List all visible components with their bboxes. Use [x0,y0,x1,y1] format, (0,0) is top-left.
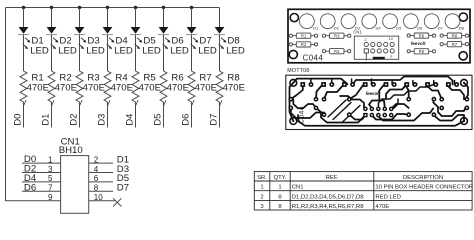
copper trace mid diagonals 2 [342,106,360,123]
LED D1 [18,27,30,49]
copper CN1 pads [363,107,393,118]
svg-text:5: 5 [48,174,53,183]
svg-text:R1,R2,R3,R4,R5,R6,R7,R8: R1,R2,R3,R4,R5,R6,R7,R8 [292,204,364,210]
LED D5 [130,27,142,49]
copper trace D5 cathode down [379,85,384,101]
resistor R3 [76,71,83,102]
svg-text:D5: D5 [152,114,163,126]
copper trace D2 cathode to R1 pad [316,85,323,100]
copper trace left S [293,99,316,108]
wire resistor to net D5 [163,102,165,128]
wire branch 7 anode [191,8,193,28]
node junction bus/branch 2 [50,6,53,9]
wire branch 8 anode [219,8,221,28]
wire LED to resistor [51,35,53,71]
wire LED to resistor [23,35,25,71]
mounting hole bottom-right [459,52,467,60]
svg-text:LED: LED [142,45,161,56]
svg-text:1: 1 [260,185,263,191]
copper trace right wiggle [433,102,465,116]
svg-text:470E: 470E [375,204,389,210]
copper trace left lower hook [291,108,324,118]
node junction bus/branch 5 [134,6,137,9]
svg-text:RED LED: RED LED [375,194,401,200]
no-connect X on pin 10 [113,198,121,206]
wire branch 3 anode [79,8,81,28]
wire net D2 to pin 3 [22,172,61,174]
svg-text:470E: 470E [167,82,189,93]
silk LED D3 outline [341,14,356,29]
silk resistor R6 [407,33,435,38]
copper trace D6 cathode to R6 [405,85,409,100]
svg-text:1: 1 [278,185,281,191]
svg-text:470E: 470E [195,82,217,93]
copper trace CN loop right [377,109,433,121]
svg-text:2: 2 [365,38,367,42]
copper trace mid horizontal [340,96,364,108]
node junction bus/branch 6 [162,6,165,9]
svg-text:470E: 470E [27,82,49,93]
copper board outline [286,75,472,129]
svg-text:BH10: BH10 [59,145,83,156]
svg-text:D8: D8 [459,26,465,31]
wire LED to resistor [191,35,193,71]
svg-text:R7: R7 [452,42,458,47]
copper trace mid to CN bottom [349,115,365,120]
svg-text:9: 9 [48,193,53,202]
svg-text:D2: D2 [334,26,340,31]
svg-text:D2: D2 [68,114,79,126]
resistor R2 [48,71,55,102]
node junction bus/branch 7 [190,6,193,9]
svg-text:LED: LED [198,45,217,56]
svg-text:C044: C044 [303,54,324,63]
svg-text:D1: D1 [40,114,51,126]
svg-text:R3: R3 [334,33,340,38]
copper trace right bottom hook [433,115,464,121]
wire resistor to net D3 [107,102,109,128]
wire branch 2 anode [51,8,53,28]
wire left rail to pin 9 [6,8,61,201]
silk LED D7 outline [424,14,439,29]
net tap tick D5 [164,100,167,106]
silk LED D6 outline [404,14,419,29]
wire pin 6 [89,181,113,183]
copper trace right upper weave [386,85,407,100]
svg-text:D3: D3 [96,114,107,126]
svg-text:LED: LED [30,45,49,56]
copper trace top stubs [311,79,455,85]
svg-text:470E: 470E [83,82,105,93]
silk resistor R4 [322,49,350,54]
wire branch 5 anode [135,8,137,28]
node junction bus/branch 3 [78,6,81,9]
LED D3 [74,27,86,49]
silk logo bar [373,57,385,60]
resistor R7 [188,71,195,102]
svg-text:LED: LED [86,45,105,56]
wire pin 8 [89,190,113,192]
svg-text:6: 6 [94,174,99,183]
copper trace D1 cathode to R1 [291,85,303,100]
resistor R1 [20,71,27,102]
resistor R6 [160,71,167,102]
LED D2 [46,27,58,49]
wire resistor to net D1 [51,102,53,128]
wire top supply bus [6,7,220,9]
svg-text:470E: 470E [139,82,161,93]
copper trace D4 cathode [349,85,363,100]
BOM table frame [254,172,472,210]
svg-text:CN1: CN1 [353,30,362,35]
svg-text:470E: 470E [55,82,77,93]
svg-text:2: 2 [94,155,99,164]
wire pin 2 [89,162,113,164]
net tap tick D6 [192,100,195,106]
copper trace D8 cathode to right column [447,85,465,100]
svg-text:R6: R6 [419,33,425,38]
node junction bus/branch 4 [106,6,109,9]
copper trace top anode chain [293,79,347,85]
svg-text:1: 1 [48,155,53,164]
svg-text:LED: LED [58,45,77,56]
svg-text:D4: D4 [124,114,135,126]
svg-text:D4: D4 [376,26,382,31]
svg-text:7: 7 [48,184,53,193]
svg-text:feevolt: feevolt [366,91,381,96]
copper trace CN top weave 2 [378,85,433,109]
svg-text:D7: D7 [208,114,219,126]
silk LED D8 outline [445,14,460,29]
svg-text:LED: LED [226,45,245,56]
svg-text:MOTT08: MOTT08 [287,68,309,74]
silk resistor R5 [407,49,435,54]
svg-text:3: 3 [48,165,53,174]
svg-text:R4: R4 [334,49,340,54]
net tap tick D1 [52,100,55,106]
wire pin 10 [89,200,116,202]
svg-text:REF.: REF. [326,175,339,181]
copper trace D3 cathode [324,85,344,100]
svg-text:2: 2 [260,194,263,200]
silk LED D2 outline [320,14,335,29]
mounting hole top-right [459,13,467,21]
copper trace R2 run to CN [316,108,365,123]
silk LED D4 outline [362,14,377,29]
svg-text:10: 10 [94,193,103,202]
svg-text:8: 8 [94,184,99,193]
svg-text:CN1: CN1 [292,185,304,191]
LED D4 [102,27,114,49]
wire LED to resistor [219,35,221,71]
svg-text:C044: C044 [299,106,306,124]
silk LED D1 outline [300,14,315,29]
wire LED to resistor [163,35,165,71]
copper trace CN lower loop [372,114,409,120]
LED D8 [214,27,226,49]
silk LED D5 outline [383,14,398,29]
wire LED to resistor [135,35,137,71]
net tap tick D0 [24,100,27,106]
svg-text:D5: D5 [396,26,402,31]
svg-text:LED: LED [170,45,189,56]
BOM row 2 [260,194,401,200]
wire branch 4 anode [107,8,109,28]
silk resistor R2 [289,42,317,47]
svg-text:D1: D1 [313,26,319,31]
copper trace far right link [464,83,468,99]
silk resistor R7 [440,42,468,47]
svg-text:DESCRIPTION: DESCRIPTION [403,175,443,181]
copper trace D7 cathode to R8 [426,85,442,100]
wire branch 1 anode [23,8,25,28]
svg-text:LED: LED [114,45,133,56]
copper trace bottom long run [298,115,464,126]
silk resistor R3 [322,33,350,38]
wire resistor to net D2 [79,102,81,128]
wire net D6 to pin 7 [22,190,61,192]
mounting hole bottom-left [289,50,297,58]
copper resistor pads [288,97,469,117]
silk resistor R1 [289,33,317,38]
svg-text:D1,D2,D3,D4,D5,D6,D7,D8: D1,D2,D3,D4,D5,D6,D7,D8 [292,194,364,200]
PCB silk board outline [288,9,470,63]
silk resistor R8 [440,33,468,38]
BOM row 1 [260,185,473,191]
wire pin 4 [89,172,113,174]
resistor R8 [216,71,223,102]
svg-text:D6: D6 [24,182,36,193]
svg-text:feevolt: feevolt [411,41,426,46]
mounting hole top-left [290,14,298,22]
wire LED to resistor [79,35,81,71]
node junction bus/branch 1 [22,6,25,9]
copper trace CN upper weave [369,101,385,109]
svg-text:D7: D7 [438,26,444,31]
net tap tick D4 [136,100,139,106]
wire resistor to net D6 [191,102,193,128]
connector CN1 body [61,156,89,214]
svg-text:R2: R2 [301,42,307,47]
BOM row 3 [260,204,389,210]
wire LED to resistor [107,35,109,71]
wire branch 6 anode [163,8,165,28]
svg-text:R1: R1 [301,33,307,38]
net tap tick D2 [80,100,83,106]
wire resistor to net D0 [23,102,25,128]
svg-text:R5: R5 [419,49,425,54]
net tap tick D3 [108,100,111,106]
pin 1 marker line [365,53,367,60]
svg-text:10 PIN BOX HEADER CONNECTOR: 10 PIN BOX HEADER CONNECTOR [375,185,473,191]
svg-text:D6: D6 [417,26,423,31]
copper trace CN to right resistors [391,104,409,109]
copper LED pads row [300,82,459,87]
resistor R4 [104,71,111,102]
svg-text:QTY.: QTY. [274,175,287,181]
resistor R5 [132,71,139,102]
copper trace anode chain right [353,77,453,85]
wire net D4 to pin 5 [22,181,61,183]
svg-text:D0: D0 [12,114,23,126]
BOM row SR. [257,175,443,181]
copper trace mid diagonals [328,100,351,120]
svg-text:D6: D6 [180,114,191,126]
svg-text:R8: R8 [452,33,458,38]
LED D6 [158,27,170,49]
net tap tick D7 [220,100,223,106]
copper trace left edge curve [290,83,294,121]
svg-text:D7: D7 [117,183,129,194]
svg-text:SR.: SR. [257,175,267,181]
LED D7 [186,27,198,49]
wire net D0 to pin 1 [22,162,61,164]
copper mounting pads [290,79,468,124]
svg-text:4: 4 [94,165,99,174]
wire resistor to net D7 [219,102,221,128]
svg-text:470E: 470E [111,82,133,93]
svg-text:9: 9 [390,55,392,59]
wire resistor to net D4 [135,102,137,128]
svg-text:470E: 470E [223,82,245,93]
svg-text:10: 10 [389,37,393,41]
